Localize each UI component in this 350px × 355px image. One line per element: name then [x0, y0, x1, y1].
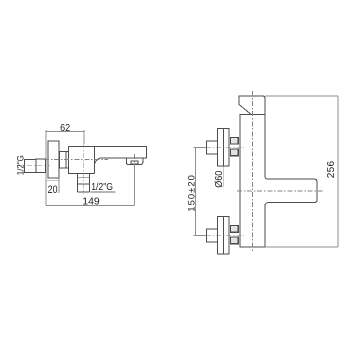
spout (side)	[69, 147, 147, 165]
handle lever (side)	[25, 160, 36, 173]
top nipple lower	[230, 149, 238, 156]
label 1/2"G leader underline	[90, 191, 115, 193]
cartridge connector	[60, 152, 69, 169]
spout bar centerline	[237, 190, 323, 192]
svg-text:Ø60: Ø60	[213, 171, 224, 188]
body horizontal centerline	[44, 159, 108, 161]
dimension 256 line	[337, 96, 339, 247]
body vertical centerline	[252, 91, 254, 252]
bottom eccentric nut	[207, 229, 218, 242]
body/spout joint line	[93, 147, 95, 174]
dimension 256 extension top	[265, 95, 338, 97]
aerator nozzle	[131, 161, 138, 164]
dimension 256 extension bottom	[265, 246, 338, 248]
label Ø60 leader	[222, 167, 224, 188]
top wall flange	[217, 128, 229, 166]
body vertical centerline	[83, 133, 85, 143]
svg-text:149: 149	[82, 196, 100, 208]
valve body	[69, 147, 95, 174]
svg-text:62: 62	[60, 122, 70, 134]
dimension 62 line	[46, 130, 84, 206]
bottom wall flange	[217, 216, 229, 254]
handle box (front)	[239, 96, 265, 114]
dimension 149 line	[46, 204, 134, 206]
aerator housing	[126, 158, 143, 164]
top nipple upper	[230, 138, 238, 145]
bottom nipple lower	[230, 237, 238, 244]
top flange inner line	[223, 128, 225, 166]
svg-text:20: 20	[48, 184, 58, 196]
aerator centerline	[134, 154, 136, 166]
cartridge connector inner line	[65, 152, 67, 169]
bottom flange inner line	[223, 216, 225, 254]
aerator extension line	[134, 166, 136, 205]
top eccentric nut	[207, 141, 218, 154]
dimension 150±20 line	[194, 147, 196, 235]
bottom nipple upper	[230, 226, 238, 233]
outlet stub	[77, 174, 89, 193]
svg-text:150±20: 150±20	[187, 174, 198, 212]
svg-text:1/2"G: 1/2"G	[15, 155, 26, 175]
handle centerline	[17, 165, 50, 167]
dimension 20 line	[46, 178, 59, 193]
wall plate	[48, 141, 59, 178]
svg-text:256: 256	[326, 160, 337, 178]
body (front) with spout bar	[240, 114, 317, 247]
bottom connector centerline	[194, 234, 206, 236]
top connector centerline	[194, 146, 206, 148]
